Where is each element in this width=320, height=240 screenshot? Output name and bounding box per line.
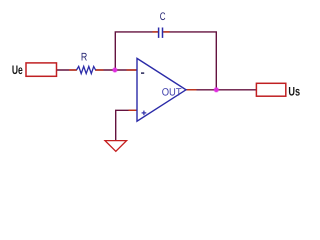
wire: feedback riser from inverting-input node up to capacitor C [115, 32, 158, 70]
label + (op-amp non-inverting input marker) [142, 111, 147, 116]
ground (earth symbol triangle) [105, 141, 127, 152]
pin stub: op-amp U1 inverting input pin [127, 69, 138, 71]
pin stub: op-amp U1 non-inverting input pin [129, 109, 138, 111]
wire: op-amp U1 output to output node and Us port [186, 89, 256, 91]
resistor R (zigzag body) [77, 66, 96, 73]
port Us (output terminal box) [256, 83, 285, 96]
wire: Ue port to resistor R (input net, left segment) [57, 69, 77, 71]
svg-text:Us: Us [288, 84, 300, 98]
pin stub: resistor R left pin [69, 69, 77, 71]
op-amp U1 (triangle body) [137, 58, 186, 121]
port Ue (input terminal box) [26, 63, 57, 76]
svg-text:R: R [81, 52, 87, 64]
pin stub: capacitor C right pin [163, 31, 169, 33]
svg-text:Ue: Ue [12, 63, 23, 77]
pin stub: op-amp U1 output pin [186, 89, 197, 91]
pin stub: capacitor C left pin [153, 31, 159, 33]
wire: capacitor C to feedback corner and down to output node [163, 32, 216, 90]
svg-text:C: C [160, 11, 166, 23]
capacitor C (plates) [159, 28, 163, 38]
wire: op-amp U1 plus pin to ground drop [116, 110, 137, 140]
node: inverting-input junction dot [112, 67, 118, 73]
label - (op-amp inverting input marker) [141, 72, 144, 74]
wire: inverting-input node to op-amp U1 minus pin [115, 69, 137, 71]
wire: resistor R to inverting-input node [96, 69, 116, 71]
node: output junction dot [213, 87, 219, 93]
pin stub: resistor R right pin [95, 69, 104, 71]
svg-text:OUT: OUT [162, 87, 182, 99]
